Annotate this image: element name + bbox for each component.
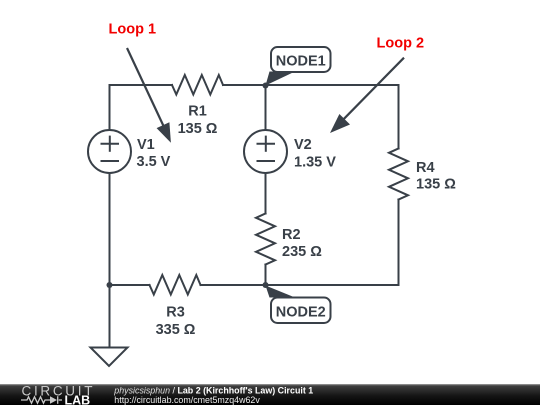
svg-text:1.35 V: 1.35 V — [294, 154, 336, 170]
wire: R1 right lead through NODE1 to top-right corner — [223, 84, 399, 86]
junction dot at V1/R3/ground — [107, 282, 113, 288]
svg-text:NODE2: NODE2 — [276, 304, 326, 320]
node label NODE1 — [266, 47, 331, 86]
wire: top-left corner to R1 left lead — [110, 84, 173, 86]
wire: R4 bottom lead down to bottom-right corner — [398, 200, 400, 286]
voltage source V2 — [244, 130, 287, 173]
CircuitLab logo resistor-diode glyph — [21, 396, 62, 404]
wire: NODE1 junction down to V2 top terminal — [265, 85, 267, 131]
resistor R3 — [150, 275, 201, 295]
svg-text:R2: R2 — [282, 227, 301, 243]
wire: bottom-left junction to R3 left lead — [110, 284, 150, 286]
junction dot NODE1 — [263, 83, 269, 89]
svg-text:235 Ω: 235 Ω — [282, 244, 322, 260]
svg-text:335 Ω: 335 Ω — [156, 322, 196, 338]
svg-text:R4: R4 — [416, 160, 435, 176]
svg-text:LAB: LAB — [65, 393, 91, 405]
svg-text:R3: R3 — [166, 304, 185, 320]
wire: right branch, top corner down to R4 top lead — [398, 85, 400, 149]
ground — [91, 348, 128, 367]
resistor R4 — [389, 149, 408, 200]
svg-text:NODE1: NODE1 — [276, 54, 326, 70]
svg-text:V2: V2 — [294, 137, 312, 153]
resistor R2 — [256, 214, 275, 265]
voltage source V1 — [88, 130, 131, 173]
svg-text:Loop 1: Loop 1 — [109, 22, 157, 38]
svg-text:http://circuitlab.com/cmet5mzq: http://circuitlab.com/cmet5mzq4w62v — [114, 395, 260, 405]
svg-text:135 Ω: 135 Ω — [178, 121, 218, 137]
junction dot NODE2 — [263, 282, 269, 288]
svg-text:3.5 V: 3.5 V — [137, 154, 171, 170]
node label NODE2 — [266, 286, 331, 324]
loop 1 arrow — [127, 48, 171, 143]
svg-text:R1: R1 — [188, 104, 207, 120]
svg-text:V1: V1 — [137, 137, 155, 153]
wire: left branch, top corner down to V1 top terminal — [109, 85, 111, 131]
wire: bottom-left junction down to ground — [109, 285, 111, 347]
wire: V1 bottom terminal down to bottom-left junction — [109, 173, 111, 286]
loop 2 arrow — [330, 58, 404, 133]
resistor R1 — [172, 75, 223, 95]
svg-text:135 Ω: 135 Ω — [416, 177, 456, 193]
footer bar — [0, 384, 540, 405]
svg-text:Loop 2: Loop 2 — [377, 36, 425, 52]
wire: R2 bottom lead to NODE2 junction — [265, 265, 267, 286]
wire: V2 bottom terminal to R2 top lead — [265, 173, 267, 214]
wire: R3 right lead through NODE2 to bottom-right corner — [201, 284, 399, 286]
svg-text:physicsisphun / Lab 2 (Kirchho: physicsisphun / Lab 2 (Kirchhoff's Law) … — [113, 385, 313, 395]
